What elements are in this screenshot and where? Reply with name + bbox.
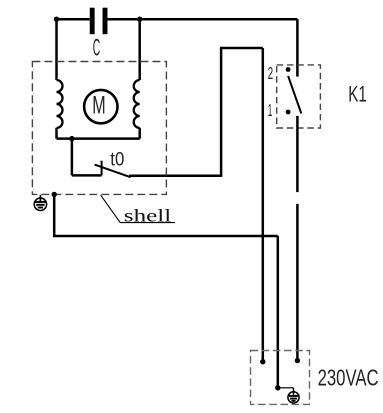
motor M1 circle (84, 90, 117, 123)
wire PE pin to earth symbol (278, 387, 294, 389)
svg-text:shell: shell (124, 206, 172, 226)
wire K1 output down lower segment to mains connector N pin (296, 204, 299, 361)
wire bridge down to mains connector L pin (262, 48, 265, 362)
wire earth from shell node down (53, 194, 56, 236)
protective earth symbol at mains (288, 388, 299, 403)
capacitor C1 left plate (90, 8, 95, 35)
connector pin dot PE (275, 385, 280, 390)
wire right branch down to aux winding (138, 19, 141, 80)
wire below right winding (138, 128, 141, 139)
wire K1 feed down from top (296, 19, 299, 76)
wire from t0 right contact to bridge riser (129, 174, 221, 177)
connector pin dot N (295, 358, 300, 363)
wire below left winding (55, 128, 58, 139)
wire top horizontal from node A to capacitor (57, 18, 90, 21)
wire top horizontal from capacitor to K1 feed corner (108, 18, 298, 21)
shell leader line (101, 195, 175, 222)
svg-text:C: C (93, 34, 101, 61)
svg-text:2: 2 (268, 63, 274, 83)
wire left branch down to main winding (55, 19, 58, 80)
connector pin dot L (260, 359, 265, 364)
thermal switch t0 blade (95, 165, 131, 178)
relay switch K1 blade (288, 76, 301, 114)
svg-text:230VAC: 230VAC (318, 365, 379, 391)
wire from common node down (71, 139, 74, 176)
protective earth symbol on shell (34, 195, 46, 211)
wire earth down to mains connector PE pin (277, 236, 280, 388)
mains connector dashed box (251, 351, 310, 405)
junction dot winding common node (69, 136, 74, 141)
relay K1 dashed box (277, 65, 321, 128)
relay K1 pin 1 dot (286, 110, 291, 115)
wire to thermal switch t0 left contact (72, 174, 102, 177)
node A junction dot (54, 17, 59, 22)
wire bridge riser up (220, 48, 223, 177)
inductor main winding left (57, 80, 63, 128)
svg-text:t0: t0 (110, 150, 124, 171)
svg-text:1: 1 (268, 100, 273, 120)
junction dot shell earth node (52, 192, 57, 197)
svg-text:M: M (92, 91, 105, 119)
wire bottom of windings horizontal (57, 137, 140, 140)
inductor aux winding right (134, 80, 140, 128)
capacitor C1 right plate (103, 8, 108, 35)
svg-text:K1: K1 (348, 82, 367, 107)
thermal switch t0 contact tick (101, 161, 103, 176)
wire earth horizontal (53, 235, 278, 238)
wire K1 output down upper segment (296, 116, 299, 192)
shell dashed box (32, 62, 166, 195)
wire bridge top horizontal (220, 47, 263, 50)
relay K1 pin 2 dot (286, 67, 291, 72)
node B junction dot (137, 17, 142, 22)
